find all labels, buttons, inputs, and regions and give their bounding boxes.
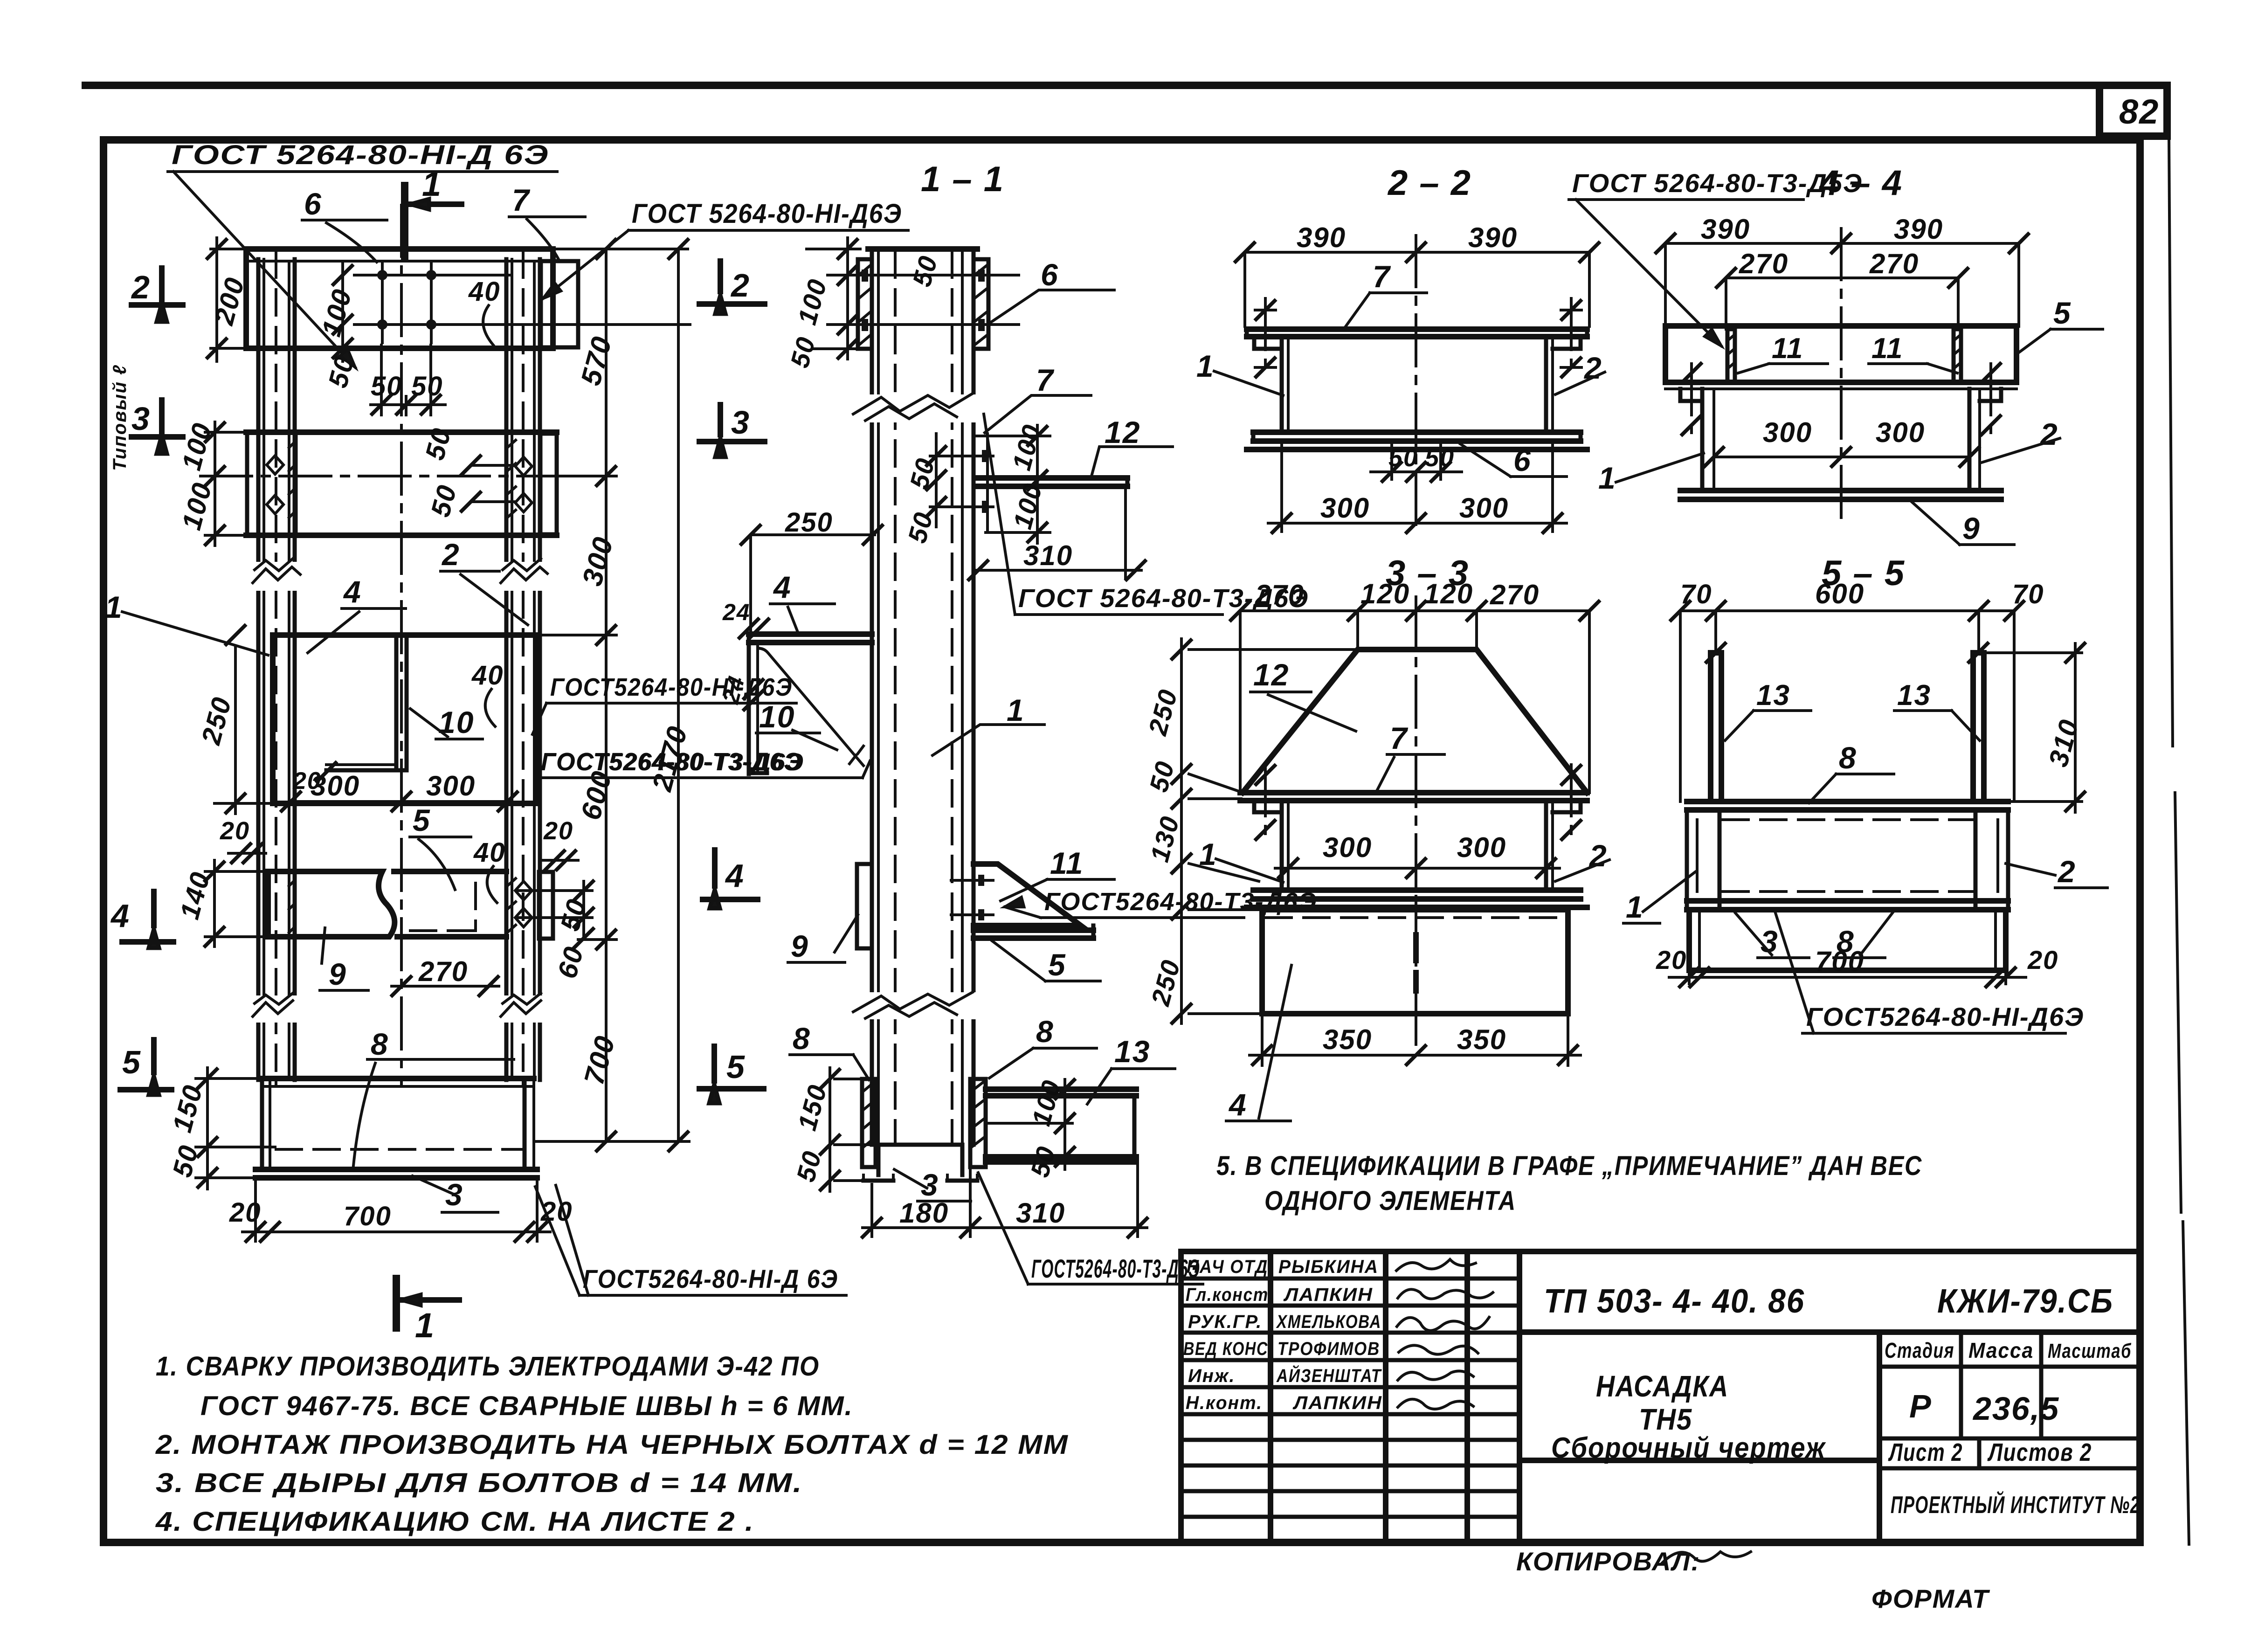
svg-text:600: 600: [1815, 578, 1864, 609]
svg-text:13: 13: [1114, 1034, 1150, 1069]
svg-text:АЙЗЕНШТАТ: АЙЗЕНШТАТ: [1276, 1364, 1382, 1386]
svg-text:300: 300: [1876, 417, 1925, 448]
svg-text:8: 8: [371, 1027, 389, 1061]
svg-text:300: 300: [1763, 417, 1812, 448]
svg-text:50: 50: [907, 252, 943, 290]
svg-text:120: 120: [1360, 578, 1410, 609]
svg-text:40: 40: [473, 837, 506, 868]
svg-text:700: 700: [344, 1201, 392, 1231]
svg-text:ТРОФИМОВ: ТРОФИМОВ: [1277, 1339, 1380, 1359]
svg-text:300: 300: [1459, 492, 1509, 524]
svg-text:Листов 2: Листов 2: [1987, 1438, 2092, 1466]
svg-text:140: 140: [174, 868, 216, 922]
svg-text:300: 300: [576, 533, 619, 589]
svg-text:60: 60: [552, 943, 590, 982]
svg-text:40: 40: [471, 660, 504, 691]
svg-text:50: 50: [785, 333, 821, 371]
svg-text:ТП 503- 4- 40. 86: ТП 503- 4- 40. 86: [1544, 1283, 1805, 1320]
svg-text:310: 310: [1023, 540, 1073, 571]
svg-text:100: 100: [792, 276, 833, 328]
svg-text:ГОСТ 5264-80-НI-Д6Э: ГОСТ 5264-80-НI-Д6Э: [632, 199, 902, 229]
svg-text:13: 13: [1756, 679, 1790, 712]
svg-text:8: 8: [1839, 740, 1857, 775]
svg-text:350: 350: [1457, 1024, 1506, 1055]
svg-text:1: 1: [1598, 461, 1616, 495]
svg-text:4: 4: [110, 898, 130, 934]
svg-text:1: 1: [1196, 349, 1215, 383]
svg-text:20: 20: [2027, 945, 2058, 975]
svg-text:250: 250: [196, 693, 238, 748]
svg-text:270: 270: [418, 956, 468, 987]
svg-text:50: 50: [411, 371, 443, 401]
svg-text:6: 6: [1513, 443, 1532, 477]
svg-text:8: 8: [793, 1021, 811, 1056]
svg-text:Масса: Масса: [1968, 1338, 2034, 1362]
svg-text:50: 50: [1388, 444, 1418, 472]
svg-text:ФОРМАТ: ФОРМАТ: [1871, 1584, 1990, 1613]
svg-text:2: 2: [131, 269, 151, 305]
svg-text:100: 100: [1026, 1077, 1067, 1129]
svg-text:ГОСТ5264-80-Т3-Д6Э: ГОСТ5264-80-Т3-Д6Э: [1031, 1254, 1200, 1283]
svg-text:390: 390: [1468, 222, 1518, 253]
svg-text:300: 300: [426, 770, 476, 802]
svg-text:10: 10: [759, 699, 795, 734]
svg-text:3: 3: [131, 401, 151, 437]
svg-text:120: 120: [1424, 578, 1473, 609]
svg-text:700: 700: [578, 1032, 621, 1088]
svg-text:20: 20: [540, 1196, 573, 1227]
svg-text:2. МОНТАЖ ПРОИЗВОДИТЬ НА Ч: 2. МОНТАЖ ПРОИЗВОДИТЬ НА ЧЕРНЫХ БОЛТАХ d…: [155, 1430, 1069, 1460]
svg-text:11: 11: [1871, 332, 1903, 365]
svg-text:4: 4: [1228, 1087, 1247, 1122]
svg-text:8: 8: [1837, 924, 1855, 959]
svg-text:9: 9: [1962, 511, 1981, 546]
svg-text:Лист 2: Лист 2: [1888, 1438, 1963, 1466]
svg-text:250: 250: [1145, 956, 1186, 1009]
svg-text:13: 13: [1897, 679, 1931, 712]
svg-text:ЛАПКИН: ЛАПКИН: [1292, 1393, 1382, 1413]
svg-text:11: 11: [1772, 332, 1803, 365]
svg-text:5: 5: [413, 803, 431, 837]
svg-text:100: 100: [1007, 421, 1047, 473]
svg-text:2: 2: [730, 267, 750, 304]
svg-text:ПРОЕКТНЫЙ ИНСТИТУТ №2: ПРОЕКТНЫЙ ИНСТИТУТ №2: [1891, 1491, 2140, 1519]
svg-text:24: 24: [722, 599, 751, 625]
svg-text:ВЕД КОНС: ВЕД КОНС: [1183, 1339, 1268, 1359]
svg-text:ЛАПКИН: ЛАПКИН: [1283, 1285, 1373, 1305]
svg-text:4. СПЕЦИФИКАЦИЮ СМ. НА ЛИС: 4. СПЕЦИФИКАЦИЮ СМ. НА ЛИСТЕ 2 .: [155, 1507, 754, 1537]
svg-text:390: 390: [1701, 214, 1750, 245]
svg-text:2: 2: [2057, 854, 2076, 889]
svg-text:Инж.: Инж.: [1188, 1366, 1236, 1386]
svg-text:1: 1: [105, 590, 123, 624]
svg-text:20: 20: [220, 817, 250, 845]
svg-text:20: 20: [543, 817, 573, 845]
svg-text:50: 50: [1144, 758, 1180, 795]
svg-text:ГОСТ5264-80-Т3-Д6Э: ГОСТ5264-80-Т3-Д6Э: [541, 749, 804, 776]
svg-text:ГОСТ 5264-80-Т3-Д5Э: ГОСТ 5264-80-Т3-Д5Э: [1572, 168, 1863, 198]
svg-text:50: 50: [1425, 444, 1455, 472]
svg-text:390: 390: [1894, 214, 1943, 245]
svg-text:70: 70: [2012, 579, 2044, 609]
svg-text:4: 4: [773, 570, 792, 604]
svg-text:1 – 1: 1 – 1: [921, 159, 1004, 199]
svg-text:50: 50: [425, 481, 463, 520]
svg-text:РУК.ГР.: РУК.ГР.: [1188, 1312, 1262, 1332]
svg-text:Н.конт.: Н.конт.: [1186, 1393, 1263, 1413]
svg-text:ХМЕЛЬКОВА: ХМЕЛЬКОВА: [1276, 1312, 1381, 1332]
svg-text:ГОСТ5264-80-НI-Д6Э: ГОСТ5264-80-НI-Д6Э: [1806, 1002, 2084, 1031]
svg-text:12: 12: [1105, 415, 1140, 449]
svg-text:350: 350: [1323, 1024, 1372, 1055]
svg-text:270: 270: [1869, 248, 1919, 279]
svg-text:3. ВСЕ ДЫРЫ ДЛЯ БОЛТОВ d: 3. ВСЕ ДЫРЫ ДЛЯ БОЛТОВ d = 14 ММ.: [156, 1468, 803, 1498]
svg-text:150: 150: [792, 1081, 833, 1134]
svg-text:1: 1: [415, 1306, 435, 1345]
svg-text:390: 390: [1297, 222, 1346, 253]
svg-text:1: 1: [1626, 890, 1644, 924]
svg-text:250: 250: [785, 507, 833, 538]
svg-text:100: 100: [176, 479, 218, 533]
svg-text:20: 20: [1656, 945, 1687, 975]
svg-text:300: 300: [311, 770, 360, 802]
svg-text:40: 40: [468, 276, 501, 307]
svg-text:270: 270: [1255, 579, 1305, 610]
svg-text:5: 5: [726, 1049, 746, 1085]
svg-text:5: 5: [1048, 947, 1066, 982]
svg-text:236,5: 236,5: [1972, 1390, 2059, 1427]
svg-text:Типовый ℓ: Типовый ℓ: [110, 364, 130, 471]
svg-text:270: 270: [1739, 248, 1788, 279]
svg-text:12: 12: [1253, 657, 1289, 692]
svg-text:6: 6: [1041, 257, 1059, 292]
svg-text:5. В СПЕЦИФИКАЦИИ В ГРАФЕ: 5. В СПЕЦИФИКАЦИИ В ГРАФЕ „ПРИМЕЧАНИЕ” Д…: [1216, 1151, 1922, 1181]
svg-text:2 – 2: 2 – 2: [1387, 163, 1471, 203]
svg-text:7: 7: [1390, 721, 1409, 755]
svg-text:Гл.конст: Гл.конст: [1186, 1285, 1269, 1305]
svg-text:ГОСТ 5264-80-НI-Д 6Э: ГОСТ 5264-80-НI-Д 6Э: [172, 140, 549, 170]
svg-text:КОПИРОВАЛ:: КОПИРОВАЛ:: [1516, 1547, 1700, 1576]
svg-text:ГОСТ5264-80-НI-Д 6Э: ГОСТ5264-80-НI-Д 6Э: [583, 1264, 838, 1293]
svg-text:310: 310: [2043, 716, 2085, 770]
svg-text:50: 50: [555, 895, 593, 934]
svg-text:НАСАДКА: НАСАДКА: [1596, 1369, 1729, 1403]
svg-text:ОДНОГО ЭЛЕМЕНТА: ОДНОГО ЭЛЕМЕНТА: [1264, 1186, 1516, 1216]
svg-text:70: 70: [1680, 579, 1712, 609]
svg-text:КЖИ-79.СБ: КЖИ-79.СБ: [1937, 1283, 2113, 1320]
svg-text:310: 310: [1016, 1197, 1065, 1229]
svg-text:250: 250: [1142, 686, 1183, 739]
svg-text:Р: Р: [1909, 1388, 1932, 1424]
svg-text:ГОСТ 9467-75. ВСЕ СВАРНЫЕ: ГОСТ 9467-75. ВСЕ СВАРНЫЕ ШВЫ h = 6 ММ.: [200, 1391, 853, 1421]
svg-text:50: 50: [371, 371, 403, 401]
svg-text:100: 100: [176, 419, 218, 473]
svg-text:3: 3: [731, 404, 750, 441]
svg-text:5: 5: [2053, 296, 2072, 330]
svg-text:300: 300: [1457, 832, 1506, 863]
svg-text:Стадия: Стадия: [1885, 1338, 1954, 1362]
svg-text:7: 7: [512, 183, 531, 217]
svg-text:1: 1: [1199, 837, 1217, 871]
svg-text:300: 300: [1323, 832, 1372, 863]
svg-text:8: 8: [1036, 1014, 1054, 1049]
svg-text:РЫБКИНА: РЫБКИНА: [1278, 1257, 1379, 1277]
svg-text:300: 300: [1320, 492, 1370, 524]
svg-text:ТН5: ТН5: [1639, 1403, 1692, 1436]
svg-text:7: 7: [1373, 259, 1391, 294]
svg-text:50: 50: [902, 509, 939, 546]
svg-text:20: 20: [229, 1197, 262, 1228]
svg-text:Масштаб: Масштаб: [2048, 1340, 2132, 1362]
svg-text:2: 2: [441, 537, 460, 572]
svg-text:9: 9: [329, 957, 347, 991]
svg-text:50: 50: [1025, 1143, 1061, 1180]
svg-text:1. СВАРКУ ПРОИЗВОДИТЬ ЭЛЕКТ: 1. СВАРКУ ПРОИЗВОДИТЬ ЭЛЕКТРОДАМИ Э-42 П…: [156, 1351, 820, 1382]
svg-text:5: 5: [122, 1044, 141, 1080]
svg-text:570: 570: [575, 333, 618, 389]
svg-text:11: 11: [1050, 846, 1084, 880]
svg-text:6: 6: [304, 187, 322, 221]
svg-text:9: 9: [791, 929, 809, 963]
svg-text:82: 82: [2119, 92, 2159, 131]
svg-text:4: 4: [725, 857, 745, 894]
svg-text:2: 2: [2039, 417, 2058, 451]
svg-text:7: 7: [1036, 363, 1055, 397]
svg-text:4: 4: [343, 574, 362, 609]
svg-text:130: 130: [1145, 813, 1185, 865]
svg-text:1: 1: [1007, 693, 1025, 727]
svg-text:Сборочный чертеж: Сборочный чертеж: [1551, 1432, 1826, 1464]
svg-text:270: 270: [1490, 579, 1540, 610]
